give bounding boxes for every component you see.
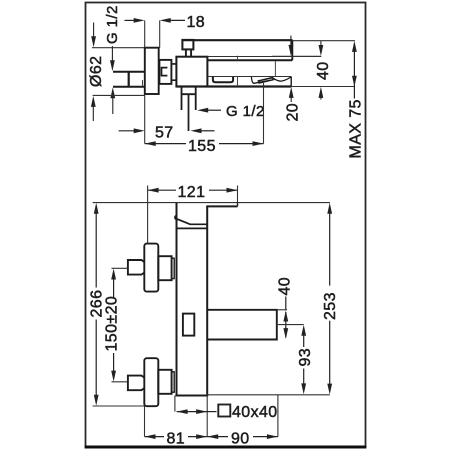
handshower nozzle slanted (258, 78, 273, 83)
top wall union end cap (172, 258, 175, 278)
dimension 150±20 top arrow (111, 269, 116, 299)
dimension 121 line left (148, 188, 176, 193)
extension line 18 left escutcheon front face (144, 20, 146, 143)
svg-text:G 1/2: G 1/2 (104, 5, 121, 44)
extension line assembly bottom right (291, 86, 355, 88)
svg-text:40: 40 (276, 277, 293, 296)
svg-text:150±20: 150±20 (103, 296, 120, 352)
extension line 266 bottom (93, 405, 145, 407)
dimension 253 bottom arrow (327, 321, 332, 395)
dimension 155 line right (219, 141, 264, 146)
extension line 90 right (277, 395, 279, 437)
extension line escutcheon top (92, 47, 159, 49)
handshower hook curves (251, 77, 291, 83)
top wall union hex nut (128, 260, 145, 275)
svg-text:18: 18 (187, 14, 206, 31)
body collar line (177, 227, 208, 229)
svg-text:253: 253 (322, 292, 339, 320)
extension line escutcheon bottom (93, 94, 145, 96)
dimension 81 line left arrow (145, 434, 165, 439)
border frame bottom thick (85, 446, 367, 449)
spout underside (207, 59, 292, 61)
assembly bottom thick (176, 85, 291, 87)
extension line 121 left (147, 186, 149, 244)
bottom wall union nipple (158, 370, 171, 394)
handle side view (159, 60, 171, 84)
dimension 40 bottom arrow (319, 87, 324, 100)
wall nipple tube top (113, 71, 145, 73)
handle inner notch (162, 68, 168, 76)
dimension 90 right arrow (253, 434, 278, 439)
dimension 90 left arrow (207, 434, 228, 439)
dimension 57 left arrow (119, 128, 145, 133)
square symbol 40x40 (218, 405, 230, 417)
top wall union escutcheon (144, 244, 158, 292)
extension line 40 outlet top (277, 309, 287, 311)
svg-text:MAX 75: MAX 75 (348, 99, 365, 158)
dimension 57 right arrow (191, 128, 215, 133)
svg-text:40x40: 40x40 (232, 404, 278, 421)
dimension 40 outlet double arrow (283, 297, 288, 340)
body window rect (183, 314, 194, 336)
wall nipple tube bottom (113, 86, 145, 88)
extension line 81 left (144, 406, 146, 437)
extension line 121 right (237, 186, 239, 203)
holder left web vertical (274, 61, 276, 77)
body top extension thin (207, 56, 321, 58)
dimension 93 top arrow (301, 325, 306, 347)
dimension 253 top arrow (327, 203, 332, 286)
extension line 155 right outlet center (263, 83, 265, 144)
cartridge collar (172, 64, 177, 80)
svg-text:40: 40 (315, 61, 332, 80)
dimension MAX 75 line with arrows (352, 41, 357, 99)
dimension 40 top arrow (319, 41, 324, 56)
dimension 20 bottom arrow (289, 87, 294, 102)
hose stub below body (182, 88, 196, 111)
svg-text:155: 155 (188, 138, 216, 155)
dimension 150±20 bottom arrow (111, 353, 116, 382)
dimension 266 top arrow (94, 203, 99, 288)
dimension 121 line right (209, 188, 238, 193)
dimension 93 bottom arrow (301, 369, 306, 395)
bottom wall union end cap (172, 372, 175, 392)
dimension 266 bottom arrow (94, 320, 99, 406)
extension line spout bottom plane (272, 55, 321, 57)
svg-text:G 1/2: G 1/2 (226, 103, 265, 120)
svg-text:90: 90 (231, 430, 250, 447)
dimension Ø62 bottom arrow (91, 96, 96, 121)
svg-text:Ø62: Ø62 (88, 56, 105, 87)
svg-text:57: 57 (155, 125, 174, 142)
spout right tick front view (237, 203, 239, 207)
G 1/2 leader arrow down to nipple top (110, 46, 115, 71)
aerator channel U shape (213, 77, 233, 82)
outlet block (207, 310, 277, 340)
spout tip right face (291, 40, 293, 60)
svg-text:93: 93 (297, 348, 314, 367)
bottom wall union hex nut (128, 376, 145, 391)
holder seam (237, 77, 239, 87)
long extension line across top of front view (93, 202, 330, 204)
dimension 18 left arrow (125, 18, 145, 23)
diverter knob stem (186, 49, 191, 56)
border frame (86, 3, 366, 447)
dimension 81 right arrow (188, 434, 207, 439)
svg-text:81: 81 (167, 430, 186, 447)
escutcheon plate side profile (145, 48, 159, 94)
dimension G 1/2 hose arrow (197, 108, 221, 113)
dimension 155 line left (145, 141, 186, 146)
extension line body right down (206, 396, 208, 437)
dimension 18 right arrow (160, 18, 185, 23)
wall nipple thread detail (142, 80, 144, 87)
extension line outlet center (276, 324, 304, 326)
svg-text:20: 20 (285, 103, 302, 122)
handle front view lever curl (175, 216, 207, 225)
center leader bottom union (112, 381, 128, 383)
hose center line (188, 95, 190, 132)
wall nipple collar bar (128, 72, 130, 87)
mixer body side view (176, 57, 207, 87)
extension line spout top to MAX 75 (293, 40, 355, 42)
extension line 18 right (159, 20, 161, 47)
body front view outline (177, 203, 208, 396)
svg-text:121: 121 (178, 184, 206, 201)
extension line body bottom right (207, 394, 330, 396)
dimension 20 top arrow (289, 36, 294, 56)
extension line body left down (174, 396, 176, 412)
G 1/2 leader arrow up to nipple bottom (110, 87, 115, 114)
top wall union nipple (158, 256, 171, 280)
dimension 40x40 line with arrows (177, 409, 217, 414)
dimension Ø62 top arrow (91, 23, 96, 48)
spout top edge front view (206, 205, 237, 207)
center leader top union (112, 267, 128, 269)
diverter knob (182, 40, 193, 50)
holder top line thin (208, 76, 291, 78)
spout seam vertical (237, 56, 239, 61)
spout bar top (183, 39, 293, 41)
bottom wall union escutcheon (144, 358, 158, 406)
holder right face (290, 77, 292, 87)
